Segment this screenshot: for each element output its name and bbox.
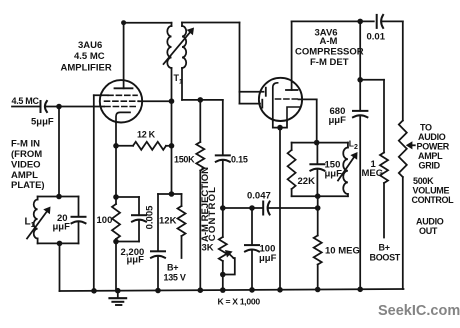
grid of V2 (dashed) [276, 98, 299, 100]
svg-text:L1: L1 [25, 217, 35, 230]
potentiometer 500K volume control [399, 121, 407, 290]
svg-text:12 K: 12 K [137, 130, 156, 140]
watermark SeekIC.com [378, 303, 460, 319]
screen grid of V1 (dashed) [105, 100, 139, 102]
tube V2 3AV6 envelope [259, 78, 302, 121]
label AUDIO OUT [416, 217, 444, 237]
svg-text:VOLUME: VOLUME [413, 186, 450, 196]
label 680uuF [329, 106, 347, 126]
node screen supply junction [169, 191, 175, 197]
svg-text:MEG: MEG [362, 168, 384, 179]
label T1 [174, 73, 184, 86]
capacitor 5uuF input coupling [41, 101, 47, 112]
tube V1 3AU6 envelope [100, 80, 142, 122]
svg-text:(FROM: (FROM [11, 149, 42, 160]
label 3AV6 A-M COMPRESSOR F-M DET [295, 28, 364, 69]
svg-text:F-M DET: F-M DET [310, 57, 349, 68]
wire cathode of V1 down [115, 122, 117, 197]
svg-text:22K: 22K [298, 176, 316, 187]
wire cathode leads join below V2 [273, 121, 287, 128]
node cathode of V2 [277, 125, 283, 131]
svg-text:VIDEO: VIDEO [11, 159, 41, 170]
node tank top junction [56, 194, 62, 200]
svg-text:POWER: POWER [417, 142, 450, 152]
svg-text:A-M: A-M [320, 36, 338, 47]
label 3K [202, 243, 214, 254]
node 150K top [198, 97, 204, 103]
wire V1 plate to T1 primary [124, 22, 172, 24]
arrow wiper of 3K pot [225, 250, 234, 258]
node cathode network bottom [113, 239, 119, 245]
cathode of V1 [116, 112, 130, 122]
node 680uuF and 1MEG branch [357, 77, 363, 83]
svg-text:K = X 1,000: K = X 1,000 [218, 297, 261, 307]
label L2 [349, 139, 358, 152]
capacitor 20uuF tank [72, 197, 86, 244]
label 5uuF [31, 117, 54, 128]
svg-text:5μμF: 5μμF [31, 117, 54, 128]
wire suppressor grid to ground bus [93, 95, 95, 290]
arrow variable tuning of T1 [164, 28, 195, 65]
label 0.005 (rotated) [144, 205, 155, 229]
resistor 22K [288, 143, 296, 197]
svg-text:135 V: 135 V [164, 272, 186, 282]
potentiometer 3K A-M rejection control [219, 208, 227, 275]
diode plate 1 of V2 [240, 88, 266, 96]
label A-M REJECTION (rotated) [200, 167, 211, 242]
wire 3K wiper tie-down loop [223, 258, 235, 275]
wire suppressor grid left stub [94, 94, 108, 96]
label 150uuF [325, 160, 343, 180]
label 10 MEG [325, 246, 360, 257]
svg-text:4.5 MC: 4.5 MC [74, 51, 105, 62]
label TO AUDIO POWER AMPL GRID [417, 123, 450, 171]
svg-text:500K: 500K [413, 176, 434, 186]
wire plate branch down [359, 21, 361, 79]
label 2200uuF [121, 247, 145, 266]
arrow variable adjustment of L2 [338, 152, 358, 181]
svg-text:AUDIO: AUDIO [418, 132, 446, 142]
resistor 10 MEG [314, 208, 322, 290]
capacitor 680uuF [353, 80, 367, 289]
wire 3K to ground bus [222, 275, 224, 291]
svg-text:μμF: μμF [127, 255, 145, 266]
label 500K VOLUME CONTROL [412, 176, 455, 205]
wire input from 4.5MC [12, 106, 40, 108]
capacitor 2200uuF cathode bypass [116, 197, 146, 242]
label 12K vertical [159, 216, 177, 227]
wire capacitor to grid of V1 [47, 106, 105, 108]
diode plate 2 of V2 [240, 100, 263, 108]
svg-text:12K: 12K [159, 216, 177, 227]
svg-text:GRID: GRID [419, 161, 441, 171]
label 0.01 [367, 32, 386, 43]
plate of V2 and lead up [286, 21, 298, 90]
resistor 12K screen dropping to B+ [172, 194, 186, 258]
node tank bottom junction [57, 241, 63, 247]
svg-text:μμF: μμF [329, 115, 347, 126]
wire T1 secondary bottom rail [182, 99, 223, 101]
ground symbol [110, 291, 127, 305]
node grid at detector rail [314, 140, 320, 146]
node plate corner [121, 20, 126, 25]
wire tank top rail [38, 196, 79, 198]
node 100uuF tap [249, 205, 255, 211]
svg-text:CONTROL: CONTROL [207, 186, 218, 241]
svg-text:F-M IN: F-M IN [11, 139, 40, 150]
svg-text:AUDIO: AUDIO [416, 217, 444, 227]
svg-text:PLATE): PLATE) [11, 180, 45, 191]
svg-text:AMPL: AMPL [418, 151, 443, 161]
svg-text:SeekIC.com: SeekIC.com [378, 303, 460, 319]
svg-text:3AU6: 3AU6 [78, 40, 102, 51]
wire 0.01 to volume control top [382, 21, 403, 120]
node cathode network top [113, 194, 119, 200]
inductor L2 variable coil [343, 143, 348, 197]
label B+ BOOST terminal [370, 243, 401, 263]
wire input junction down to tank [58, 107, 60, 197]
svg-text:COMPRESSOR: COMPRESSOR [295, 47, 364, 58]
svg-text:0.005: 0.005 [144, 205, 155, 229]
wire V2 cathode to ground bus [279, 128, 281, 290]
label 100uuF [259, 244, 277, 265]
control grid of V1 (dashed) [105, 106, 138, 108]
svg-text:4.5 MC: 4.5 MC [12, 96, 40, 106]
label 3AU6 4.5 MC AMPLIFIER [61, 40, 112, 74]
svg-text:BOOST: BOOST [370, 253, 401, 263]
capacitor 0.005 screen bypass [151, 194, 172, 291]
svg-text:100: 100 [97, 215, 113, 226]
transformer T1 secondary winding [182, 23, 186, 100]
node ground bus junctions [91, 287, 363, 294]
svg-text:CONTROL: CONTROL [412, 195, 455, 205]
wire tank to ground bus [59, 243, 61, 291]
wire detector bottom to 0.047 node [317, 196, 319, 208]
svg-text:0.01: 0.01 [367, 32, 386, 43]
label CONTROL (rotated) [207, 186, 218, 241]
svg-text:OUT: OUT [419, 226, 438, 236]
node input junction [56, 104, 62, 110]
svg-text:AMPL: AMPL [11, 170, 38, 181]
capacitor 0.01 coupling to volume control [377, 15, 383, 28]
capacitor 0.047 coupling [263, 202, 269, 215]
resistor 150K grid return [196, 100, 204, 290]
cathode side element of V2 [287, 107, 301, 121]
node 12K right end at screen line [169, 143, 175, 149]
label 150K [174, 155, 195, 165]
suppressor grid of V1 (dashed) [108, 94, 137, 96]
svg-text:B+: B+ [167, 262, 178, 272]
resistor 12K horizontal [116, 142, 172, 150]
label 0.15 [231, 155, 248, 165]
node screen grid and T1 primary return [169, 98, 175, 104]
wire cathode network to ground [115, 242, 117, 291]
label 22K [298, 176, 316, 187]
svg-text:L2: L2 [349, 139, 358, 152]
resistor 1 MEG to B+ boost [380, 153, 388, 238]
svg-text:TO: TO [420, 123, 432, 133]
svg-text:3K: 3K [202, 243, 214, 254]
node 3K bottom [220, 272, 226, 278]
svg-text:μμF: μμF [53, 222, 71, 233]
wire to 0.047 capacitor [223, 207, 263, 209]
label 1 MEG [362, 159, 384, 179]
wire tank bottom rail [38, 242, 79, 244]
wire detector top rail [292, 142, 348, 144]
wire 0.047 to 10MEG node [268, 207, 317, 209]
wire screen grid of V1 to B+ node [139, 100, 172, 102]
wire screen node down [171, 101, 173, 194]
label 4.5 MC input [12, 96, 40, 106]
arrow variable adjustment of L1 [27, 207, 51, 239]
transformer T1 primary winding [167, 23, 171, 102]
label 100 ohm [97, 215, 113, 226]
svg-text:μμF: μμF [259, 253, 277, 264]
plate of V1 and lead to T1 [115, 23, 133, 89]
node 12K left end at cathode line [113, 143, 119, 149]
svg-text:B+: B+ [379, 243, 390, 253]
capacitor 100uuF to ground [245, 208, 259, 290]
label B+ 135 V terminal [164, 262, 186, 282]
label 20uuF [53, 213, 71, 233]
svg-text:0.047: 0.047 [247, 191, 271, 202]
inductor L1 variable coil [34, 197, 38, 244]
label K = X 1000 [218, 297, 261, 307]
resistor 100 ohm cathode [112, 197, 120, 242]
wire ground bus [60, 289, 404, 291]
wire V2 plate line to 0.01 [292, 20, 374, 22]
label 0.047 [247, 191, 271, 202]
svg-text:10 MEG: 10 MEG [325, 246, 360, 257]
wire detector bottom rail [292, 195, 348, 197]
label L1 [25, 217, 35, 230]
node detector bottom junction [315, 193, 321, 199]
cathode of V2 [273, 83, 278, 121]
wire down to diode bracket [239, 23, 241, 104]
label 12K cathode-screen resistor [137, 130, 156, 140]
label F-M IN (FROM VIDEO AMPL PLATE) [11, 139, 45, 192]
capacitor 150uuF [310, 143, 324, 197]
wire branch to 1 MEG [360, 80, 384, 153]
node plate line at 680uuF branch [357, 19, 363, 25]
svg-text:AMPLIFIER: AMPLIFIER [61, 63, 112, 74]
node 0.047 at 10MEG line [315, 205, 321, 211]
wire grid of V2 to detector rail [299, 99, 317, 142]
arrow wiper of 500K volume control [406, 141, 415, 149]
svg-text:150K: 150K [174, 155, 195, 165]
svg-text:0.15: 0.15 [231, 155, 248, 165]
wire T1 secondary top to V2 diode plates [182, 22, 240, 24]
capacitor 0.15 with lead to A-M rejection control [216, 100, 230, 211]
